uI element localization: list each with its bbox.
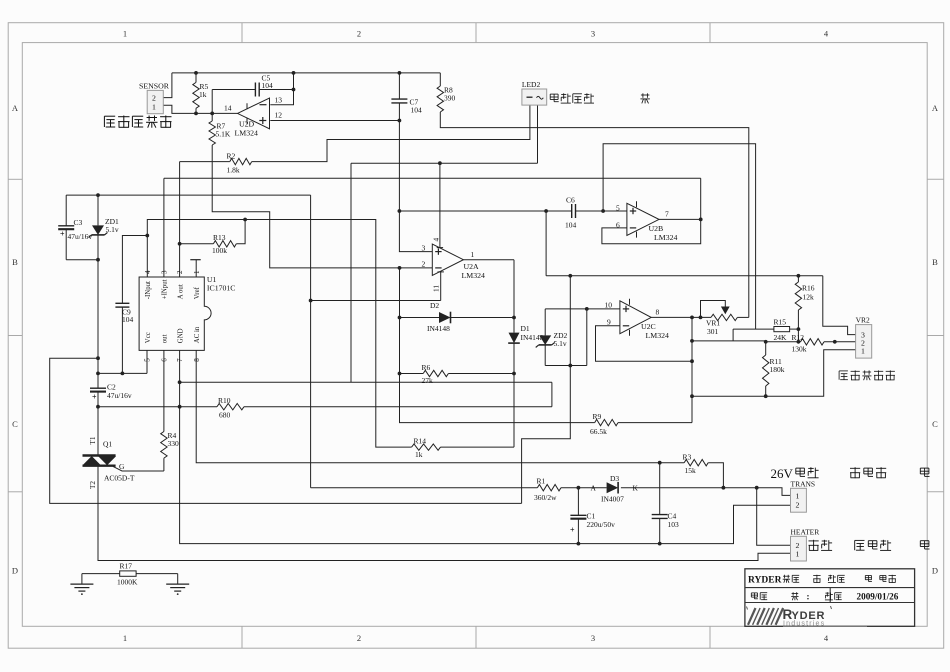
svg-text:13: 13	[275, 96, 283, 105]
svg-text:6: 6	[161, 358, 169, 362]
svg-text:66.5k: 66.5k	[590, 427, 607, 436]
svg-text:R2: R2	[227, 152, 236, 161]
svg-text:12: 12	[275, 111, 283, 120]
svg-text:C: C	[932, 419, 938, 429]
resistor R15 24K box style	[774, 317, 790, 342]
connector SENSOR	[139, 81, 170, 113]
svg-text:R6: R6	[422, 363, 431, 372]
RYDER industries logo	[747, 606, 868, 627]
resistor R17 1000K box style between grounds	[82, 562, 178, 587]
svg-text:U2A: U2A	[464, 262, 480, 271]
svg-text:5.1K: 5.1K	[216, 129, 231, 138]
svg-text:9: 9	[607, 317, 611, 326]
svg-text:U1: U1	[207, 275, 217, 284]
wire U2A pin4 drop from y=163	[437, 163, 443, 247]
wire R12 line to VR2 pin2	[766, 341, 856, 343]
wire U2B feedback loop	[602, 178, 701, 244]
ground right of R17	[166, 574, 189, 595]
connector LED2 heater indicator lamp	[522, 80, 547, 105]
resistor R13 100k	[180, 220, 246, 255]
resistor R3 15k	[683, 452, 709, 475]
svg-text:24K: 24K	[774, 333, 788, 342]
capacitor C2 47u/16v electrolytic	[90, 382, 132, 401]
svg-text:47u/16v: 47u/16v	[107, 391, 132, 400]
resistor R2 1.8k	[227, 152, 252, 175]
label 电烙 铁加热 丝 soldering iron heater wire	[809, 540, 930, 551]
wire U2B pin5 riser and top link to R15 column	[603, 144, 756, 329]
svg-text:15k: 15k	[685, 466, 697, 475]
wire long vertical x=311	[310, 195, 312, 488]
zener diode ZD1 5.1v	[89, 195, 119, 260]
svg-text:C6: C6	[566, 196, 575, 205]
svg-text:AC in: AC in	[194, 326, 201, 343]
svg-text:1: 1	[123, 633, 127, 643]
svg-text:LM324: LM324	[235, 129, 258, 138]
wire C6 node drop to mid rail	[545, 211, 547, 276]
wire rail y=195 C3 top net	[66, 194, 310, 196]
svg-text:5.1v: 5.1v	[554, 339, 567, 348]
svg-text:D1: D1	[521, 324, 530, 333]
IC U1 IC1701C	[139, 270, 235, 362]
svg-text:Vcc: Vcc	[145, 332, 152, 343]
wire R9 line	[400, 268, 693, 423]
svg-text:B: B	[12, 257, 18, 267]
svg-text:10: 10	[605, 301, 613, 310]
svg-text:1: 1	[193, 270, 201, 274]
svg-text:3: 3	[161, 270, 169, 274]
wire U2C output pin8 to VR1	[651, 316, 749, 318]
wire U1 pin7 gnd to trans pin2	[180, 350, 791, 543]
wire U2B output pin7	[659, 218, 701, 220]
svg-text:27k: 27k	[422, 376, 434, 385]
svg-text:2: 2	[357, 633, 361, 643]
resistor R12 130k	[792, 333, 825, 353]
capacitor C1 220u/50v electrolytic	[570, 488, 615, 544]
wire R10 line y=407	[98, 406, 552, 408]
svg-text:R17: R17	[120, 562, 133, 571]
wire U2A pin11 to x=311 column	[311, 272, 444, 301]
svg-text:R10: R10	[218, 396, 231, 405]
svg-text:1: 1	[152, 102, 156, 111]
wire gnd branch y=382	[180, 382, 552, 406]
wire U1 pin4 net to R14	[147, 220, 411, 448]
svg-text:+INput: +INput	[162, 279, 169, 299]
svg-text:D: D	[932, 566, 938, 576]
svg-text:LM324: LM324	[646, 331, 669, 340]
svg-text:1k: 1k	[415, 450, 423, 459]
title row2 绘制者:黄明 2009/01/26	[751, 591, 898, 601]
capacitor C3 47u/16v electrolytic	[58, 195, 98, 260]
svg-text:GND: GND	[177, 328, 184, 343]
capacitor C4 103	[652, 463, 679, 544]
wire R2 left to U1 pin2	[180, 162, 230, 277]
connector VR2	[856, 316, 872, 359]
svg-text:Q1: Q1	[103, 439, 112, 448]
svg-text:1: 1	[123, 29, 127, 39]
svg-text:1k: 1k	[199, 90, 207, 99]
svg-text:3: 3	[422, 244, 426, 253]
connector HEATER	[791, 527, 820, 561]
svg-text:A: A	[12, 103, 19, 113]
capacitor C9 104	[115, 303, 133, 324]
svg-text:R9: R9	[593, 412, 602, 421]
svg-text:103: 103	[668, 520, 680, 529]
svg-text:K: K	[633, 483, 639, 492]
svg-text:1: 1	[796, 550, 800, 559]
svg-text:R15: R15	[774, 317, 787, 326]
wire R3 right drop	[708, 463, 723, 488]
svg-text:A out: A out	[177, 284, 184, 299]
resistor R5 1k	[193, 73, 209, 114]
wire T2 to heater pin1	[98, 466, 791, 560]
wire top supply rail y=73	[172, 72, 440, 74]
svg-text:D: D	[12, 566, 18, 576]
wire U1 pin8 AC line to R3	[196, 350, 684, 462]
wire VR2 pin1 net y=396	[692, 350, 856, 396]
svg-text:U2B: U2B	[649, 224, 664, 233]
resistor R4 330	[161, 350, 179, 471]
resistor R7 5.1K	[209, 113, 432, 268]
wire U2D pin13 to top rail	[270, 73, 293, 105]
wire U1 pin5 gnd stub	[98, 350, 147, 373]
svg-text:301: 301	[707, 327, 719, 336]
label 26V交流 电压输 入 AC voltage input	[771, 466, 930, 481]
ground left of R17	[70, 574, 93, 595]
svg-text:1000K: 1000K	[117, 577, 138, 586]
resistor R11 180k	[763, 342, 785, 396]
wire heater pin2 branch	[757, 488, 791, 546]
svg-text:out: out	[162, 334, 169, 343]
svg-text:1.8k: 1.8k	[227, 165, 240, 174]
svg-text:5: 5	[616, 203, 620, 212]
svg-text:U2D: U2D	[239, 120, 255, 129]
svg-text:2: 2	[152, 94, 156, 103]
svg-text:IN4007: IN4007	[601, 495, 624, 504]
wire sensor pin2 to top rail	[163, 73, 172, 98]
svg-text:5: 5	[144, 358, 152, 362]
svg-text:SENSOR: SENSOR	[139, 81, 170, 90]
svg-text:2: 2	[422, 260, 426, 269]
svg-text:RYDER: RYDER	[748, 576, 782, 586]
svg-text:4: 4	[144, 270, 152, 274]
wire y=163 link LED2 to gnd column	[351, 163, 538, 382]
svg-text:12k: 12k	[803, 292, 815, 301]
diode D1 IN4148	[441, 260, 544, 447]
svg-text:T1: T1	[89, 436, 97, 444]
svg-text:130k: 130k	[792, 344, 807, 353]
op-amp U2B LM324	[616, 201, 677, 242]
svg-text:A: A	[591, 483, 597, 492]
svg-text:A: A	[932, 103, 939, 113]
svg-text:LM324: LM324	[462, 271, 485, 280]
title row1 RYDER恒温 电烙铁 原理图	[748, 575, 896, 586]
svg-text:220u/50v: 220u/50v	[587, 520, 616, 529]
svg-text:HEATER: HEATER	[791, 527, 820, 536]
wire main left column x=98	[97, 260, 99, 455]
wire R15 right / R16 bottom	[790, 329, 799, 342]
svg-text:LED2: LED2	[522, 80, 541, 89]
svg-text:2: 2	[357, 29, 361, 39]
svg-text:4: 4	[432, 238, 440, 242]
wire U2C pin10 line	[545, 308, 620, 310]
svg-text::: :	[807, 591, 810, 601]
label 温度调节电 temperature adjust	[839, 370, 895, 380]
svg-text:IN4148: IN4148	[521, 333, 544, 342]
resistor R8 390	[437, 73, 749, 318]
wire jog to R15	[692, 329, 774, 341]
svg-text:6: 6	[616, 220, 620, 229]
svg-text:2: 2	[176, 270, 184, 274]
svg-text:8: 8	[193, 358, 201, 362]
wire U2A output to D1 column	[463, 259, 514, 261]
svg-text:IC1701C: IC1701C	[207, 284, 236, 293]
capacitor C5 104	[255, 74, 273, 97]
svg-text:100k: 100k	[212, 246, 227, 255]
wire C5 right to pin13 vertical	[259, 89, 294, 91]
resistor R14 1k	[412, 436, 441, 458]
svg-text:R14: R14	[414, 436, 427, 445]
svg-text:680: 680	[219, 410, 231, 419]
svg-text:G: G	[119, 462, 125, 471]
title block table	[745, 569, 915, 627]
wire C5 left branch to node	[212, 90, 255, 114]
capacitor C7 104	[391, 97, 422, 114]
svg-text:+: +	[92, 393, 97, 402]
diode D2 IN4148	[400, 301, 515, 333]
svg-text:104: 104	[565, 220, 577, 229]
wire ZD2 parallel link	[545, 309, 587, 366]
op-amp U2A LM324	[422, 238, 485, 293]
svg-text:R3: R3	[683, 452, 692, 461]
svg-text:U2C: U2C	[641, 322, 656, 331]
wire left loop x=50	[50, 358, 522, 503]
svg-text:390: 390	[444, 93, 456, 102]
svg-text:C3: C3	[74, 218, 83, 227]
svg-text:2009/01/26: 2009/01/26	[857, 592, 899, 602]
resistor R10 680	[217, 396, 244, 419]
svg-text:180k: 180k	[770, 365, 785, 374]
label 加热指示 灯 heating indicator lamp	[550, 93, 650, 103]
svg-text:11: 11	[432, 285, 440, 292]
svg-text:B: B	[932, 257, 938, 267]
op-amp U2C LM324	[605, 299, 669, 340]
svg-text:360/2w: 360/2w	[534, 493, 557, 502]
label 温度传感器 temperature sensor	[104, 116, 171, 128]
svg-text:R1: R1	[537, 476, 546, 485]
svg-text:7: 7	[665, 209, 669, 218]
resistor R16 12k	[795, 276, 815, 329]
svg-text:R16: R16	[802, 284, 815, 293]
svg-text:5.1v: 5.1v	[106, 225, 119, 234]
resistor R6 27k	[400, 363, 515, 385]
svg-text:2: 2	[796, 541, 800, 550]
triac Q1 AC05D-T	[83, 436, 164, 489]
diode D3 IN4007	[591, 474, 639, 504]
connector TRANS	[791, 479, 816, 512]
resistor R9 66.5k	[590, 412, 618, 436]
potentiometer VR1 301	[701, 301, 738, 337]
zener diode ZD2 5.1v	[536, 309, 568, 366]
wire C6 line from C7 node	[399, 210, 627, 212]
svg-text:AC05D-T: AC05D-T	[104, 474, 135, 483]
wire long rail y=178 U1 pin3 to U2B loop	[164, 178, 701, 277]
svg-text:D2: D2	[430, 301, 439, 310]
svg-text:14: 14	[224, 104, 232, 113]
wire C7 net vertical / U2A pin3	[399, 73, 432, 252]
svg-text:2: 2	[796, 500, 800, 509]
wire pin8 column x=692	[691, 317, 693, 422]
svg-text:26V: 26V	[771, 466, 794, 481]
wire mid rail y=276	[546, 275, 823, 277]
wire U2C pin9 feedback	[596, 326, 693, 361]
wire C9 branch	[122, 236, 147, 374]
svg-text:104: 104	[411, 105, 423, 114]
svg-text:+: +	[60, 229, 65, 238]
op-amp U2D LM324 (mirrored)	[224, 96, 282, 138]
svg-text:1: 1	[471, 250, 475, 259]
U1 pin1 Vref tick bar	[190, 260, 200, 277]
svg-text:T2: T2	[89, 481, 97, 489]
svg-text:LM324: LM324	[654, 233, 677, 242]
capacitor C6 104	[565, 196, 577, 230]
wire AC rail y=488 to TRANS pin1	[311, 488, 791, 496]
svg-text:C: C	[12, 419, 18, 429]
svg-text:104: 104	[262, 81, 274, 90]
svg-text:330: 330	[168, 439, 180, 448]
svg-text:7: 7	[176, 358, 184, 362]
wire VR2 pin3 net	[823, 276, 856, 335]
svg-text:Vref: Vref	[194, 286, 201, 299]
resistor R1 360/2w	[534, 476, 561, 501]
svg-text:1: 1	[796, 492, 800, 501]
wire U2B/C6 node big loop W1	[522, 276, 571, 504]
svg-text:8: 8	[656, 307, 660, 316]
svg-text:TRANS: TRANS	[791, 479, 816, 488]
svg-text:IN4148: IN4148	[427, 324, 450, 333]
svg-text:3: 3	[591, 633, 595, 643]
svg-text:104: 104	[122, 315, 134, 324]
svg-text:VR2: VR2	[856, 316, 870, 325]
svg-text:D3: D3	[610, 474, 619, 483]
wire R2 right to LED2 anode lead	[252, 105, 530, 162]
wire sensor pin1 to input node y=113	[163, 105, 237, 113]
svg-text:3: 3	[591, 29, 595, 39]
svg-text:1: 1	[861, 347, 865, 356]
svg-text:-INput: -INput	[145, 281, 152, 299]
svg-text:R13: R13	[213, 233, 226, 242]
wire LED2 cathode lead	[537, 105, 539, 163]
wire U2D pin12 to C7	[270, 120, 399, 122]
svg-text:+: +	[570, 525, 575, 534]
